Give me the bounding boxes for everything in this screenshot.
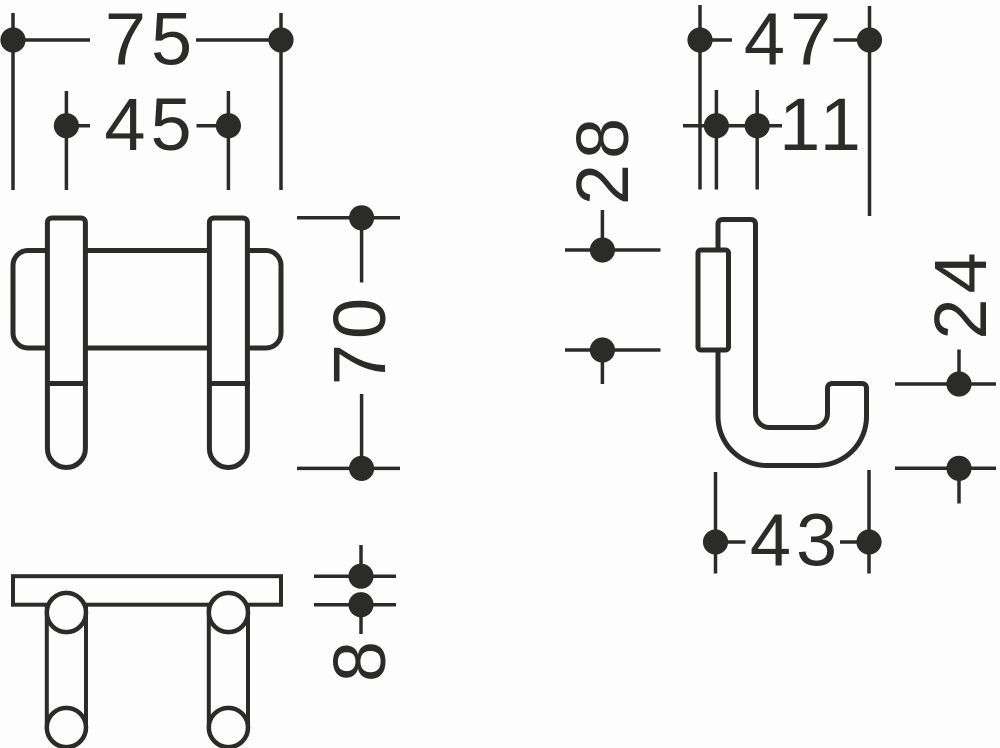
top view: wall plate edge bar — [13, 576, 281, 605]
front view: extension line left of 45 — [65, 91, 69, 190]
svg-text:24: 24 — [919, 247, 1000, 339]
side view: J-hook outline — [718, 220, 867, 466]
dimension 28 upper horizontal — [565, 248, 661, 252]
dimension line 45 left segment — [66, 124, 90, 128]
side view: extension line right of 47 — [868, 6, 872, 216]
dot terminator 28 bottom — [590, 337, 615, 362]
dimension line 75 left segment — [13, 38, 90, 42]
top view: left hook arm bottom circle — [47, 708, 86, 747]
dimension line 70 lower vertical segment — [360, 394, 364, 468]
side view: extension line left of 11 — [715, 90, 719, 190]
dot terminator 43 left — [703, 529, 728, 554]
dimension 28 lower horizontal — [565, 348, 661, 352]
svg-text:45: 45 — [104, 83, 196, 166]
front view: extension line right of 75 — [279, 13, 283, 190]
top view: right hook arm bottom circle — [209, 708, 248, 747]
front view: right hook bar with rounded bottom tip — [209, 218, 247, 468]
dimension line 75 right segment — [196, 38, 281, 42]
dimension 28 stub above — [601, 210, 605, 250]
side view: extension line left of 47 — [698, 5, 702, 190]
dot terminator 24 top — [946, 371, 971, 396]
front view: right hook separation line — [207, 381, 250, 386]
dimension 24 stub below — [957, 468, 961, 503]
dot terminator 47 right — [857, 27, 882, 52]
dimension line 70 upper vertical segment — [360, 218, 364, 283]
svg-text:70: 70 — [318, 293, 401, 385]
dimension line 45 right segment — [197, 124, 229, 128]
svg-text:75: 75 — [105, 0, 197, 81]
dimension line 70 top horizontal — [297, 216, 400, 220]
dimension line 47 left segment — [700, 38, 732, 42]
dimension 24 upper horizontal — [895, 382, 996, 386]
side view: extension line right of 43 — [867, 470, 871, 574]
dimension line 70 bottom horizontal — [297, 467, 400, 471]
dot terminator 43 right — [856, 529, 881, 554]
svg-text:28: 28 — [561, 113, 644, 205]
dot terminator 45 right — [216, 113, 241, 138]
dot terminator 70 top — [349, 205, 374, 230]
dot terminator 47 left — [687, 27, 712, 52]
svg-text:47: 47 — [744, 0, 836, 81]
side view: extension line left of 43 — [714, 472, 718, 574]
front view: left hook separation line — [45, 381, 88, 386]
dimension 24 lower horizontal — [895, 467, 996, 471]
dimension 28 stub below — [601, 350, 605, 384]
side view: wall plate cross-section — [698, 250, 729, 350]
top view: left hook arm top circle — [47, 593, 86, 632]
dot terminator 11 left — [704, 113, 729, 138]
svg-text:43: 43 — [750, 499, 842, 582]
dot terminator 28 top — [590, 237, 615, 262]
dimension 8 stub below — [359, 605, 363, 634]
dot terminator 8 bottom — [348, 592, 373, 617]
top view: dimension 8 lower horizontal — [314, 603, 396, 607]
top view: right hook arm bottom cap — [209, 728, 248, 748]
top view: right hook arm right side line — [246, 604, 250, 728]
top view: left hook arm bottom cap — [47, 728, 86, 748]
front view: extension line right of 45 — [227, 91, 231, 190]
dimension line 11 — [683, 124, 782, 128]
dimension 24 stub above — [957, 350, 961, 385]
dot terminator 8 top — [348, 564, 373, 589]
front view: left hook bar with rounded bottom tip — [47, 218, 85, 468]
dot terminator 70 bottom — [349, 456, 374, 481]
dot terminator 75 left — [0, 27, 25, 52]
front view: extension line left of 75 — [11, 13, 15, 190]
top view: right hook arm top circle — [209, 593, 248, 632]
dot terminator 45 left — [54, 113, 79, 138]
front view: wall plate (rounded ends) — [13, 251, 281, 349]
svg-text:11: 11 — [779, 83, 866, 166]
top view: left hook arm left side line — [45, 604, 49, 728]
top view: left hook arm right side line — [84, 604, 88, 728]
dot terminator 11 right — [745, 113, 770, 138]
dot terminator 24 bottom — [946, 456, 971, 481]
dimension line 43 right segment — [840, 540, 869, 544]
dimension 8 stub above — [359, 545, 363, 576]
dimension line 43 left segment — [716, 540, 746, 544]
top view: dimension 8 upper horizontal — [314, 574, 396, 578]
top view: right hook arm left side line — [207, 604, 211, 728]
svg-text:8: 8 — [318, 641, 401, 682]
side view: extension line right of 11 — [755, 90, 759, 190]
dimension line 47 right segment — [834, 38, 870, 42]
dot terminator 75 right — [268, 27, 293, 52]
